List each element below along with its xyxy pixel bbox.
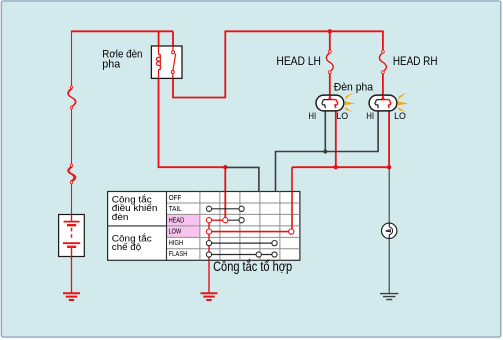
svg-text:OFF: OFF <box>169 193 182 202</box>
svg-text:HI: HI <box>366 111 374 122</box>
svg-text:FLASH: FLASH <box>169 249 188 258</box>
svg-text:HEAD LH: HEAD LH <box>276 54 321 68</box>
svg-text:Đèn pha: Đèn pha <box>334 82 373 94</box>
svg-text:TAIL: TAIL <box>169 204 183 213</box>
svg-text:HI: HI <box>308 111 316 122</box>
svg-text:LOW: LOW <box>169 227 182 236</box>
svg-text:LO: LO <box>336 111 348 122</box>
svg-text:LO: LO <box>394 111 406 122</box>
svg-text:HIGH: HIGH <box>169 238 184 247</box>
svg-text:chế độ: chế độ <box>112 242 141 253</box>
svg-text:HEAD RH: HEAD RH <box>393 54 438 68</box>
svg-text:Công tắc tổ hợp: Công tắc tổ hợp <box>213 258 292 274</box>
svg-text:đèn: đèn <box>112 212 129 223</box>
svg-text:pha: pha <box>102 58 120 70</box>
svg-text:HEAD: HEAD <box>169 215 185 224</box>
